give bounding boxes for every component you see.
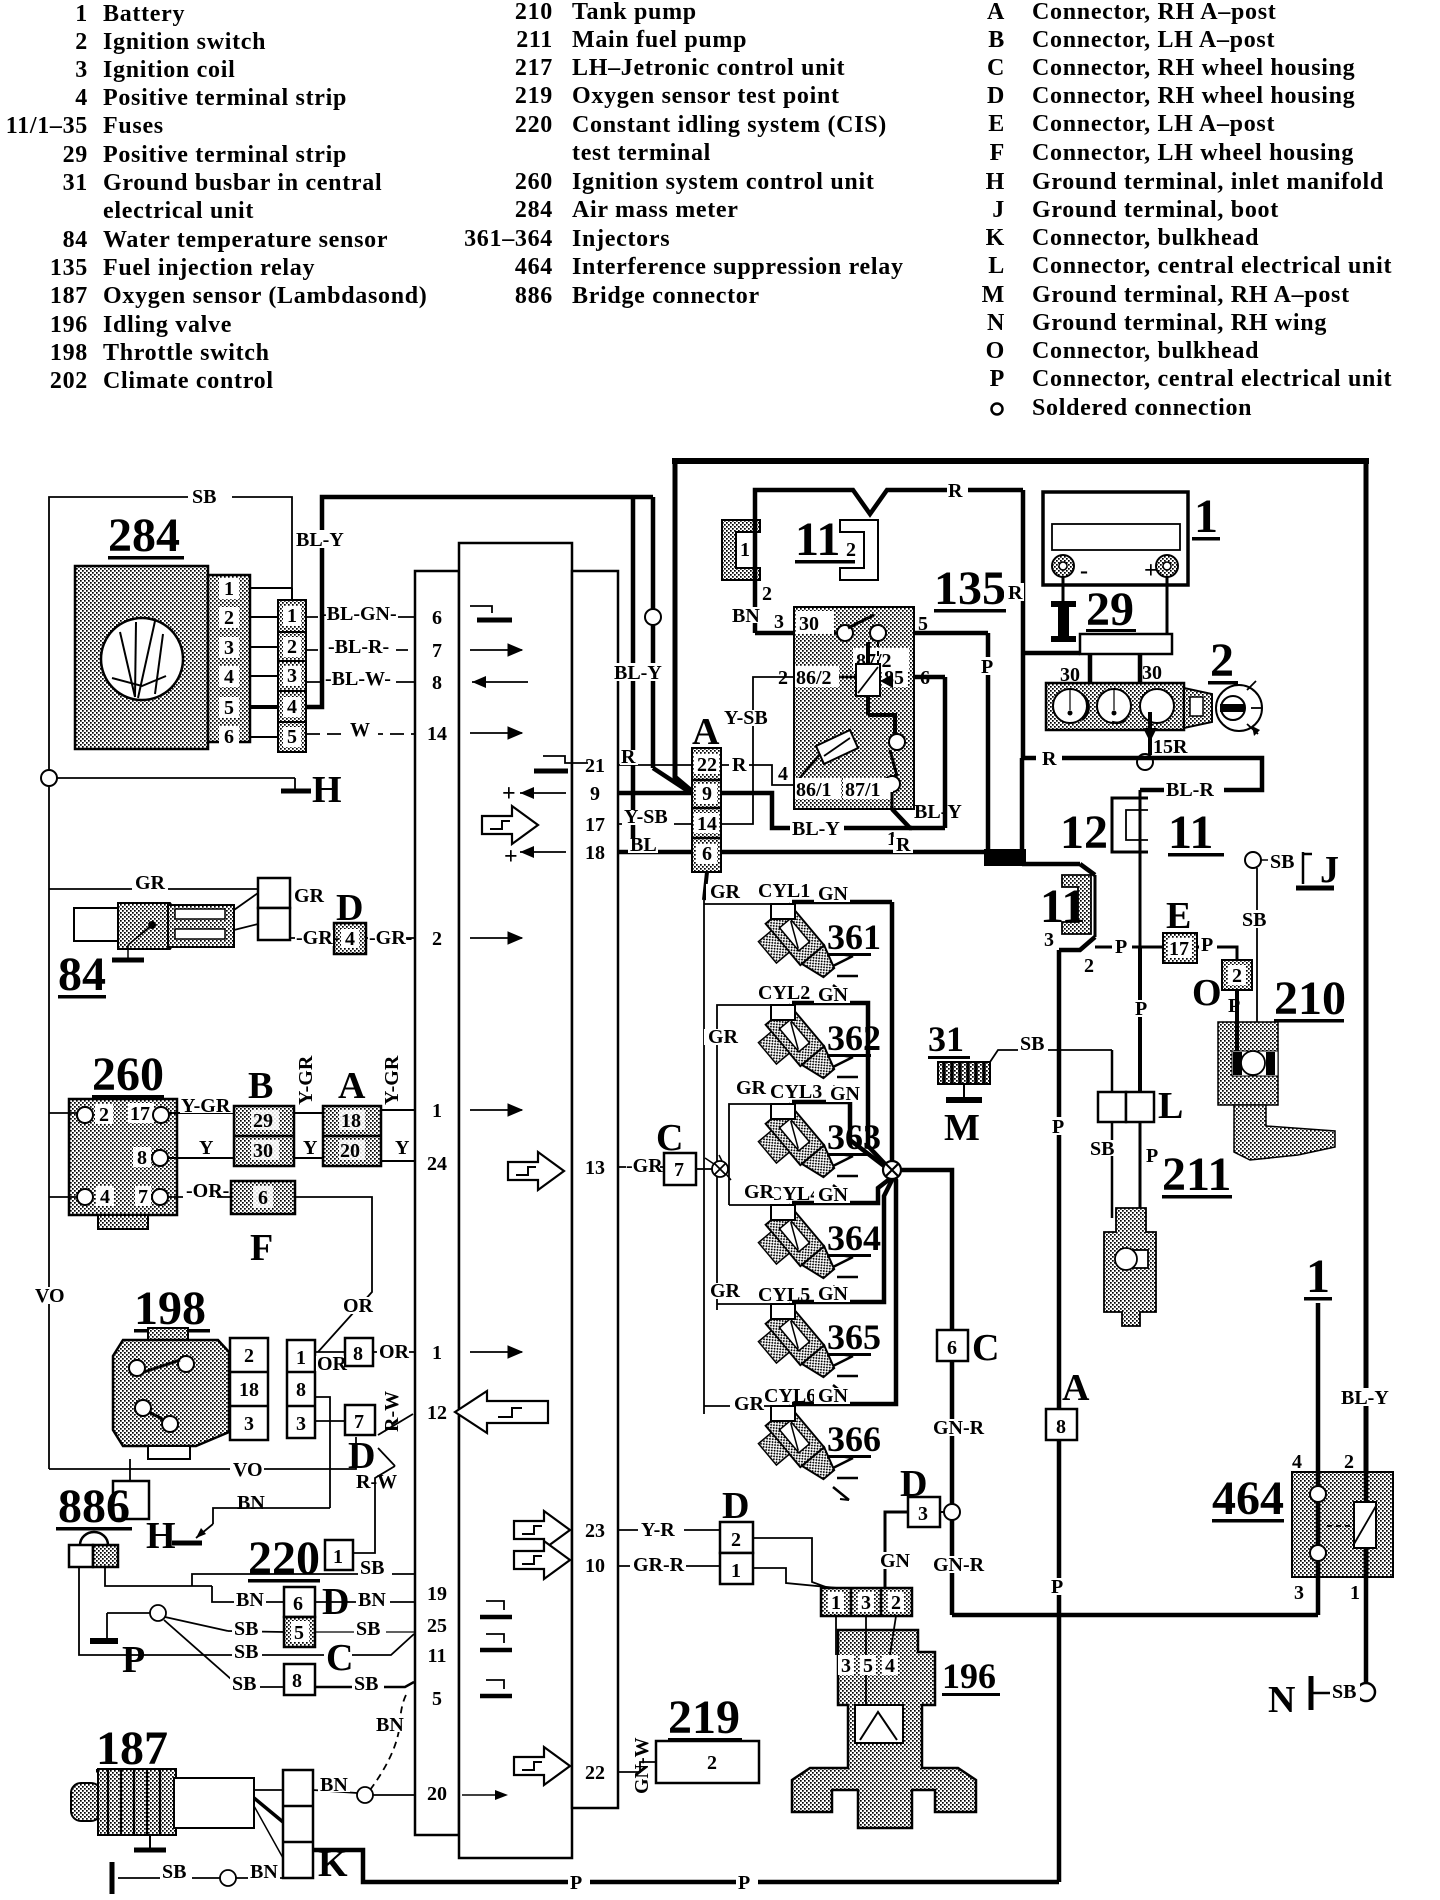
ground P at 886: [90, 1613, 145, 1681]
svg-text:2: 2: [99, 1104, 109, 1126]
thick frame wire right / BL-Y to 464: [1338, 461, 1394, 1504]
svg-text:Ground terminal, boot: Ground terminal, boot: [1032, 197, 1279, 223]
svg-text:Y-GR: Y-GR: [181, 1095, 231, 1117]
wire GR-R from ECU 10 to D1: [618, 1554, 720, 1576]
svg-text:Water temperature sensor: Water temperature sensor: [103, 227, 388, 253]
svg-text:+: +: [502, 781, 516, 807]
svg-text:Throttle switch: Throttle switch: [103, 340, 270, 366]
left bus wire down to 260: [48, 786, 50, 1113]
air mass meter 284 label: [108, 509, 184, 562]
svg-text:R: R: [732, 754, 747, 776]
svg-text:GR: GR: [708, 1026, 739, 1048]
svg-text:E: E: [1166, 895, 1191, 937]
positive terminal strip 29: [1060, 583, 1172, 686]
svg-text:7: 7: [138, 1186, 148, 1208]
svg-text:SB: SB: [234, 1618, 258, 1640]
injector 362 CYL2: [704, 982, 886, 1310]
svg-text:4: 4: [345, 928, 355, 950]
svg-text:3: 3: [296, 1413, 306, 1435]
fuse 11 connector 1: [722, 520, 760, 580]
svg-text:GR: GR: [710, 881, 741, 903]
svg-text:196: 196: [942, 1656, 996, 1696]
svg-text:20: 20: [340, 1140, 360, 1162]
svg-text:SB: SB: [1090, 1138, 1114, 1160]
svg-text:-: -: [1080, 558, 1088, 584]
svg-text:210: 210: [1274, 972, 1346, 1025]
svg-text:86/2: 86/2: [796, 667, 832, 689]
svg-text:Connector, LH A–post: Connector, LH A–post: [1032, 27, 1275, 53]
wire R from battery region: [1004, 490, 1080, 758]
fuse 11 label: [795, 513, 855, 566]
wire P from relay 5 down: [979, 633, 998, 852]
svg-text:1: 1: [1306, 1250, 1330, 1303]
wire battery plus to 29: [1166, 577, 1169, 634]
svg-text:Oxygen sensor (Lambdasond): Oxygen sensor (Lambdasond): [103, 283, 427, 309]
wire 1 feed to 464 pin 4: [1292, 1250, 1354, 1615]
svg-text:135: 135: [50, 255, 88, 281]
svg-text:Positive terminal strip: Positive terminal strip: [103, 142, 347, 168]
wire ECU 21 to A22: [618, 746, 692, 768]
svg-text:J: J: [992, 197, 1005, 223]
wire W row 14: [306, 719, 415, 741]
svg-text:6: 6: [293, 1593, 303, 1615]
svg-text:30: 30: [799, 613, 819, 635]
wire A6 R to node: [721, 834, 988, 856]
svg-text:J: J: [1320, 849, 1339, 891]
connector F box 6: [231, 1181, 295, 1269]
svg-text:12: 12: [427, 1402, 447, 1424]
svg-text:Connector, bulkhead: Connector, bulkhead: [1032, 225, 1259, 251]
long wire P down right side: [1048, 950, 1069, 1882]
svg-text:2: 2: [224, 607, 234, 629]
wire P bottom bus to 464: [952, 1613, 1318, 1618]
svg-text:GN: GN: [818, 1283, 849, 1305]
wire Y row to connector B: [168, 1137, 234, 1159]
svg-text:1: 1: [731, 1560, 741, 1582]
svg-text:220: 220: [248, 1532, 320, 1585]
fuel injection relay 135: [778, 562, 1006, 809]
svg-text:Y-GR: Y-GR: [295, 1055, 317, 1105]
svg-text:C: C: [972, 1327, 999, 1369]
wire BL-Y thick from connector pin 4: [294, 497, 653, 707]
svg-text:3: 3: [774, 611, 784, 633]
svg-text:BN: BN: [358, 1589, 386, 1611]
svg-text:4: 4: [287, 696, 297, 718]
svg-text:GN: GN: [830, 1083, 861, 1105]
fuse 11 connector 2: [840, 520, 878, 580]
ground M: [944, 1084, 982, 1149]
svg-text:P: P: [1135, 998, 1147, 1020]
wire P label above L: [1132, 998, 1150, 1020]
wire 15R from switch: [1137, 712, 1188, 770]
svg-text:4: 4: [224, 666, 234, 688]
connector box below 198: [113, 1459, 149, 1519]
svg-text:+: +: [1144, 558, 1158, 584]
injector GR bus from A6: [704, 872, 707, 1414]
connector K: [254, 1770, 348, 1885]
svg-text:BL-R: BL-R: [1166, 779, 1214, 801]
wire SB row C: [232, 1634, 414, 1679]
svg-text:219: 219: [515, 83, 553, 109]
svg-text:-BL-R-: -BL-R-: [328, 636, 389, 658]
svg-text:86/1: 86/1: [796, 779, 832, 801]
svg-text:Battery: Battery: [103, 1, 185, 27]
svg-text:SB: SB: [234, 1641, 258, 1663]
svg-text:8: 8: [1056, 1416, 1066, 1438]
svg-text:Ground terminal, inlet manifol: Ground terminal, inlet manifold: [1032, 169, 1384, 195]
svg-text:BL-Y: BL-Y: [792, 818, 840, 840]
svg-text:electrical unit: electrical unit: [103, 198, 254, 224]
svg-text:P: P: [1115, 936, 1127, 958]
water temperature sensor 84: [58, 903, 234, 1001]
svg-text:15R: 15R: [1153, 736, 1188, 758]
connector box 8 row SB to pin 5: [230, 1664, 414, 1695]
svg-text:6: 6: [224, 726, 234, 748]
svg-text:6: 6: [432, 607, 442, 629]
connector A at 260: [323, 1065, 381, 1166]
svg-text:GN-W: GN-W: [631, 1737, 653, 1794]
svg-text:BL-Y: BL-Y: [1341, 1387, 1389, 1409]
svg-text:H: H: [312, 769, 342, 811]
svg-text:Y-SB: Y-SB: [724, 707, 768, 729]
wire R from fuse 11: [730, 480, 1023, 633]
LH-Jetronic control unit 217 right pin strip: [572, 571, 618, 1808]
connector E box 17: [1163, 895, 1197, 963]
wire GR long from H bus to 84 connector: [49, 872, 258, 894]
svg-text:LH–Jetronic control unit: LH–Jetronic control unit: [572, 55, 845, 81]
tank pump 210: [1218, 972, 1346, 1160]
connector C box 6: [937, 1327, 999, 1369]
svg-text:Ground terminal, RH A–post: Ground terminal, RH A–post: [1032, 282, 1350, 308]
svg-text:Y: Y: [395, 1137, 410, 1159]
wire 260 pin4 to left bus / VO: [34, 1113, 77, 1469]
relay 135 pin 5: [914, 613, 988, 635]
injector 364 CYL4: [729, 1174, 896, 1299]
wires air mass meter pins to connector: [250, 588, 292, 737]
svg-text:Ignition coil: Ignition coil: [103, 57, 235, 83]
svg-text:17: 17: [1169, 938, 1189, 960]
svg-text:284: 284: [108, 509, 180, 562]
wire OR from 260 pin7 to connector F: [168, 1180, 231, 1202]
wire Y-R from ECU 23 to D2: [618, 1519, 720, 1541]
svg-text:7: 7: [354, 1411, 364, 1433]
svg-text:4: 4: [778, 763, 788, 785]
injector 363 CYL3: [729, 1077, 884, 1205]
svg-text:217: 217: [515, 55, 553, 81]
svg-text:11: 11: [1168, 806, 1213, 859]
svg-text:B: B: [248, 1065, 273, 1107]
svg-text:R: R: [948, 480, 963, 502]
svg-text:N: N: [1268, 1679, 1295, 1721]
connector D box 4: [290, 887, 415, 954]
connector C box 7 at ECU 13: [618, 1117, 712, 1185]
svg-text:OR: OR: [343, 1295, 374, 1317]
svg-text:5: 5: [287, 726, 297, 748]
svg-text:L: L: [988, 253, 1005, 279]
svg-text:12: 12: [1060, 806, 1108, 859]
svg-text:2: 2: [432, 928, 442, 950]
injector 366 CYL6: [704, 1174, 896, 1500]
svg-text:GR: GR: [734, 1393, 765, 1415]
wires A to ECU pins 1 and 24: [381, 1055, 415, 1161]
svg-text:BN: BN: [732, 605, 760, 627]
svg-text:+: +: [504, 844, 518, 870]
soldered node GR: [705, 1155, 731, 1180]
svg-text:SB: SB: [360, 1557, 384, 1579]
svg-text:CYL3: CYL3: [770, 1081, 822, 1103]
svg-text:BL: BL: [630, 834, 657, 856]
svg-text:Y: Y: [303, 1137, 318, 1159]
svg-text:84: 84: [63, 227, 88, 253]
legend column 3: [982, 0, 1393, 421]
ignition system control unit 260: [69, 1048, 177, 1229]
svg-text:OR: OR: [317, 1353, 348, 1375]
svg-text:3: 3: [224, 637, 234, 659]
main fuel pump 211: [1104, 1148, 1232, 1326]
svg-text:Connector, central electrical: Connector, central electrical unit: [1032, 366, 1392, 392]
svg-text:22: 22: [585, 1762, 605, 1784]
svg-text:GN: GN: [880, 1550, 911, 1572]
svg-text:BN: BN: [236, 1589, 264, 1611]
svg-text:9: 9: [702, 783, 712, 805]
wire GN-R from C6 down: [930, 1361, 992, 1615]
svg-text:R-W: R-W: [356, 1471, 397, 1493]
wire SB row to ECU pin 19: [79, 1557, 415, 1655]
svg-text:5: 5: [432, 1688, 442, 1710]
wire SB from L to main fuel pump: [1088, 1122, 1118, 1218]
svg-text:GR: GR: [294, 885, 325, 907]
ECU internal pin symbols: [455, 606, 588, 1800]
svg-text:Ignition switch: Ignition switch: [103, 29, 266, 55]
svg-text:10: 10: [585, 1555, 605, 1577]
connector A box 8: [1046, 1367, 1090, 1440]
svg-text:Tank pump: Tank pump: [572, 0, 697, 25]
svg-text:Constant idling system (CIS): Constant idling system (CIS): [572, 112, 887, 138]
svg-text:test terminal: test terminal: [572, 140, 711, 166]
wire node to connector C6: [901, 1170, 952, 1330]
svg-text:SB: SB: [192, 486, 216, 508]
svg-text:R: R: [1008, 582, 1023, 604]
svg-text:18: 18: [239, 1379, 259, 1401]
svg-text:364: 364: [827, 1218, 881, 1258]
svg-text:Air mass meter: Air mass meter: [572, 197, 739, 223]
svg-text:Interference suppression relay: Interference suppression relay: [572, 254, 904, 280]
connector D box 3: [876, 1463, 944, 1588]
svg-text:-GR-: -GR-: [369, 927, 412, 949]
svg-text:OR: OR: [379, 1341, 410, 1363]
svg-text:GN: GN: [818, 883, 849, 905]
svg-text:4: 4: [885, 1655, 895, 1677]
svg-text:SB: SB: [1242, 909, 1266, 931]
svg-text:11: 11: [1040, 880, 1085, 933]
svg-text:H: H: [146, 1515, 176, 1557]
svg-text:361: 361: [827, 917, 881, 957]
svg-text:M: M: [944, 1107, 980, 1149]
svg-text:3: 3: [1044, 929, 1054, 951]
svg-text:SB: SB: [1020, 1033, 1044, 1055]
svg-text:W: W: [350, 719, 370, 741]
svg-text:361–364: 361–364: [464, 226, 553, 252]
idling valve 196: [792, 1616, 1000, 1828]
svg-text:Connector, bulkhead: Connector, bulkhead: [1032, 338, 1259, 364]
svg-text:GN-R: GN-R: [933, 1554, 985, 1576]
svg-text:135: 135: [934, 562, 1006, 615]
svg-text:B: B: [988, 27, 1005, 53]
svg-text:31: 31: [63, 170, 88, 196]
svg-text:6: 6: [258, 1187, 268, 1209]
ground N: [1268, 1676, 1360, 1721]
svg-text:E: E: [988, 111, 1005, 137]
svg-text:F: F: [250, 1227, 273, 1269]
svg-text:219: 219: [668, 1691, 740, 1744]
svg-text:Ignition system control unit: Ignition system control unit: [572, 169, 875, 195]
wire P from L to main fuel pump: [1140, 1122, 1161, 1218]
svg-text:Oxygen sensor test point: Oxygen sensor test point: [572, 83, 840, 109]
svg-text:366: 366: [827, 1419, 881, 1459]
wire A22 to relay pin 4: [721, 754, 794, 785]
svg-text:18: 18: [585, 842, 605, 864]
svg-text:2: 2: [846, 539, 856, 561]
svg-text:GN-R: GN-R: [933, 1417, 985, 1439]
fuse 11 connector 3/2: [1040, 875, 1095, 977]
svg-text:R-W: R-W: [381, 1391, 403, 1432]
svg-text:BN: BN: [320, 1774, 348, 1796]
svg-text:SB: SB: [162, 1861, 186, 1883]
svg-text:260: 260: [515, 169, 553, 195]
wire P to connector O: [1197, 934, 1237, 960]
svg-text:Connector, RH wheel housing: Connector, RH wheel housing: [1032, 55, 1355, 81]
svg-text:886: 886: [58, 1480, 130, 1533]
svg-text:8: 8: [296, 1379, 306, 1401]
soldered node GN: [883, 1161, 901, 1179]
ground H at test terminal: [146, 1508, 330, 1557]
svg-text:1: 1: [831, 1592, 841, 1614]
CIS test terminal 220: [248, 1466, 395, 1585]
air mass meter 284 body: [75, 566, 250, 749]
svg-text:N: N: [987, 310, 1005, 336]
soldered connection fan-out at 886: [164, 1617, 240, 1687]
svg-text:A: A: [1062, 1367, 1090, 1409]
wire BN from throttle switch: [235, 1397, 330, 1514]
svg-text:VO: VO: [35, 1285, 65, 1307]
svg-text:22: 22: [697, 754, 717, 776]
svg-text:Y-GR: Y-GR: [381, 1055, 403, 1105]
svg-text:220: 220: [515, 112, 553, 138]
wire SB from J to tank pump: [1256, 868, 1258, 1052]
wire BL-R row 7: [306, 636, 415, 658]
svg-text:13: 13: [585, 1157, 605, 1179]
injector 361 CYL1: [704, 880, 892, 1163]
svg-text:4: 4: [1292, 1451, 1302, 1473]
svg-text:Connector, RH A–post: Connector, RH A–post: [1032, 0, 1276, 25]
dashed wire BN: [370, 1693, 407, 1790]
svg-text:1: 1: [432, 1100, 442, 1122]
svg-text:SB: SB: [232, 1673, 256, 1695]
svg-text:Injectors: Injectors: [572, 226, 670, 252]
connector box 5 row SB to pin 11: [228, 1617, 415, 1647]
svg-text:1: 1: [224, 578, 234, 600]
svg-text:2: 2: [1210, 634, 1234, 687]
svg-text:17: 17: [130, 1103, 150, 1125]
svg-text:BN: BN: [376, 1714, 404, 1736]
svg-text:D: D: [336, 887, 363, 929]
svg-text:2: 2: [762, 583, 772, 605]
svg-text:187: 187: [96, 1722, 168, 1775]
ground SB BN row at bottom: [112, 1861, 283, 1894]
svg-text:9: 9: [590, 783, 600, 805]
svg-text:11: 11: [428, 1645, 447, 1667]
svg-text:Climate control: Climate control: [103, 368, 274, 394]
svg-text:Connector, central electrical: Connector, central electrical unit: [1032, 253, 1392, 279]
svg-text:CYL1: CYL1: [758, 880, 810, 902]
connector O box 2: [1192, 960, 1252, 1024]
connector B: [234, 1065, 294, 1166]
svg-text:29: 29: [63, 142, 88, 168]
svg-text:198: 198: [50, 340, 88, 366]
svg-text:Connector, LH A–post: Connector, LH A–post: [1032, 111, 1275, 137]
svg-text:29: 29: [253, 1110, 273, 1132]
wire 260 pin2 to left bus: [49, 1112, 77, 1114]
connector boxes at 84: [234, 878, 290, 940]
node at relay P and R wires: [984, 758, 1095, 875]
svg-text:Bridge connector: Bridge connector: [572, 283, 760, 309]
svg-text:R: R: [621, 746, 636, 768]
svg-text:17: 17: [585, 814, 605, 836]
wire ECU 17 Y-SB to A14: [618, 806, 692, 828]
svg-text:29: 29: [1086, 583, 1134, 636]
svg-text:8: 8: [292, 1670, 302, 1692]
svg-text:196: 196: [50, 312, 88, 338]
svg-text:BL-Y: BL-Y: [914, 801, 962, 823]
svg-text:19: 19: [427, 1583, 447, 1605]
wire ECU 9 to A9 thick: [618, 791, 692, 796]
svg-text:21: 21: [585, 755, 605, 777]
svg-text:Idling valve: Idling valve: [103, 312, 232, 338]
svg-text:1: 1: [287, 605, 297, 627]
svg-text:187: 187: [50, 283, 88, 309]
svg-text:BL-Y: BL-Y: [614, 662, 662, 684]
svg-text:D: D: [722, 1485, 749, 1527]
svg-text:1: 1: [1194, 490, 1218, 543]
svg-text:1: 1: [1350, 1582, 1360, 1604]
svg-text:210: 210: [515, 0, 553, 25]
wire A9 BL-Y: [721, 793, 912, 840]
svg-text:R: R: [1042, 748, 1057, 770]
svg-text:1: 1: [740, 539, 750, 561]
thick frame wire top: [672, 461, 1369, 793]
wire BL-W row 8: [306, 668, 415, 690]
legend column 1: [6, 1, 428, 394]
svg-text:4: 4: [75, 85, 88, 111]
svg-text:7: 7: [432, 640, 442, 662]
svg-text:Fuel injection relay: Fuel injection relay: [103, 255, 315, 281]
throttle switch 198: [113, 1282, 229, 1459]
svg-text:3: 3: [841, 1655, 851, 1677]
svg-text:SB: SB: [356, 1618, 380, 1640]
svg-text:211: 211: [516, 27, 553, 53]
svg-text:7: 7: [674, 1159, 684, 1181]
svg-text:4: 4: [100, 1186, 110, 1208]
svg-text:3: 3: [1294, 1582, 1304, 1604]
svg-text:1: 1: [75, 1, 88, 27]
injector 365 CYL5: [706, 1178, 893, 1398]
svg-text:VO: VO: [233, 1459, 263, 1481]
svg-text:3: 3: [75, 57, 88, 83]
svg-text:P: P: [570, 1872, 582, 1894]
svg-text:GR: GR: [135, 872, 166, 894]
svg-text:5: 5: [863, 1655, 873, 1677]
svg-text:SB: SB: [1270, 851, 1294, 873]
